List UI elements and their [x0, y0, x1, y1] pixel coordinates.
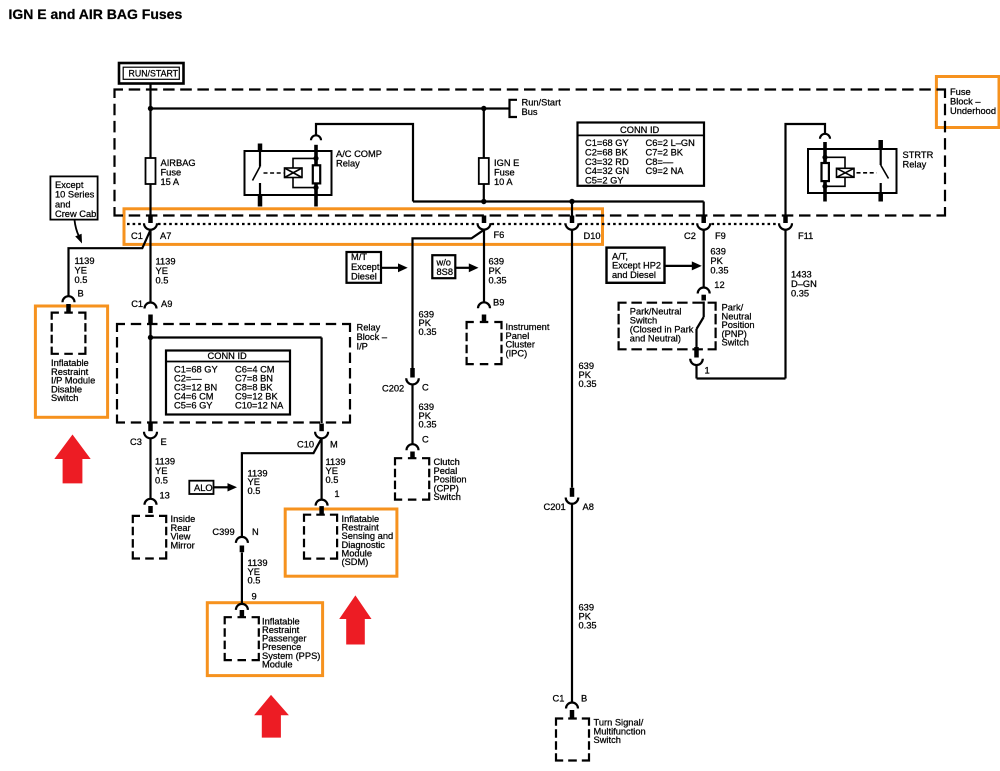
svg-text:C399: C399 [212, 527, 234, 537]
svg-text:F6: F6 [494, 230, 505, 240]
svg-text:Fuse: Fuse [494, 168, 515, 178]
svg-text:E: E [161, 437, 167, 447]
svg-text:and: and [55, 199, 71, 209]
svg-text:B: B [78, 289, 84, 299]
svg-text:0.35: 0.35 [419, 420, 437, 430]
svg-text:0.35: 0.35 [579, 621, 597, 631]
svg-text:D10: D10 [584, 231, 601, 241]
svg-text:(IPC): (IPC) [506, 348, 528, 358]
svg-text:C: C [422, 434, 429, 444]
svg-text:Switch: Switch [51, 393, 78, 403]
svg-text:1139: 1139 [156, 257, 176, 267]
svg-text:YE: YE [75, 266, 87, 276]
svg-text:Switch: Switch [434, 492, 461, 502]
svg-text:Block –: Block – [950, 96, 981, 106]
svg-text:13: 13 [160, 491, 170, 501]
svg-text:C1: C1 [553, 693, 565, 703]
svg-text:PK: PK [710, 256, 723, 266]
svg-text:Diesel: Diesel [351, 271, 377, 281]
svg-text:C: C [422, 383, 429, 393]
svg-text:IGN E and AIR BAG Fuses: IGN E and AIR BAG Fuses [9, 6, 183, 22]
svg-text:0.35: 0.35 [579, 379, 597, 389]
svg-text:D–GN: D–GN [791, 279, 817, 289]
svg-text:Module: Module [262, 659, 293, 669]
svg-text:w/o: w/o [436, 257, 451, 267]
svg-text:0.5: 0.5 [326, 475, 339, 485]
svg-text:Block –: Block – [357, 332, 388, 342]
svg-text:A9: A9 [161, 299, 172, 309]
svg-text:9: 9 [252, 591, 257, 601]
svg-text:0.5: 0.5 [156, 276, 169, 286]
svg-text:YE: YE [155, 466, 167, 476]
svg-text:C5=2 GY: C5=2 GY [585, 176, 624, 186]
svg-text:10 A: 10 A [494, 177, 513, 187]
svg-text:Relay: Relay [357, 323, 381, 333]
svg-text:A7: A7 [160, 231, 171, 241]
svg-text:12: 12 [714, 280, 724, 290]
svg-text:1139: 1139 [155, 457, 175, 467]
svg-text:Run/Start: Run/Start [522, 98, 562, 108]
svg-text:639: 639 [710, 247, 726, 257]
svg-text:C10=12 NA: C10=12 NA [235, 400, 284, 410]
svg-text:and Neutral): and Neutral) [630, 334, 681, 344]
svg-text:Fuse: Fuse [161, 168, 182, 178]
svg-text:STRTR: STRTR [903, 150, 934, 160]
svg-text:Bus: Bus [522, 107, 538, 117]
svg-text:C1: C1 [131, 299, 143, 309]
svg-text:0.5: 0.5 [75, 275, 88, 285]
svg-text:Except: Except [351, 262, 380, 272]
svg-text:B9: B9 [493, 298, 504, 308]
svg-text:CONN ID: CONN ID [620, 125, 660, 135]
svg-text:0.35: 0.35 [419, 327, 437, 337]
svg-text:N: N [252, 527, 259, 537]
svg-text:0.35: 0.35 [710, 266, 728, 276]
svg-text:YE: YE [156, 266, 168, 276]
svg-text:A8: A8 [583, 502, 594, 512]
svg-text:C3: C3 [130, 437, 142, 447]
svg-text:ALO: ALO [194, 483, 213, 493]
svg-text:0.5: 0.5 [248, 576, 261, 586]
svg-text:AIRBAG: AIRBAG [161, 158, 196, 168]
svg-text:0.35: 0.35 [489, 276, 507, 286]
svg-text:Relay: Relay [336, 159, 360, 169]
svg-text:and Diesel: and Diesel [612, 270, 656, 280]
svg-text:1433: 1433 [791, 270, 812, 280]
svg-text:1: 1 [705, 366, 710, 376]
svg-text:C10: C10 [297, 440, 314, 450]
svg-text:0.35: 0.35 [791, 289, 809, 299]
svg-text:10 Series: 10 Series [55, 190, 95, 200]
svg-text:(SDM): (SDM) [342, 557, 369, 567]
svg-text:Fuse: Fuse [950, 87, 971, 97]
svg-text:639: 639 [489, 257, 505, 267]
svg-text:Underhood: Underhood [950, 106, 996, 116]
svg-text:M/T: M/T [351, 252, 367, 262]
svg-text:Switch: Switch [722, 338, 749, 348]
svg-text:I/P: I/P [357, 342, 368, 352]
svg-text:Mirror: Mirror [171, 540, 195, 550]
svg-text:C1: C1 [131, 231, 143, 241]
svg-text:RUN/START: RUN/START [129, 69, 179, 79]
svg-text:C9=2 NA: C9=2 NA [646, 166, 685, 176]
svg-text:C201: C201 [544, 502, 566, 512]
svg-text:Crew Cab: Crew Cab [55, 209, 96, 219]
svg-text:C2: C2 [684, 231, 696, 241]
svg-text:15 A: 15 A [161, 177, 180, 187]
svg-text:Relay: Relay [903, 160, 927, 170]
svg-text:IGN E: IGN E [494, 158, 519, 168]
svg-text:1139: 1139 [75, 256, 95, 266]
svg-text:F11: F11 [798, 231, 813, 241]
svg-text:Except: Except [55, 180, 84, 190]
svg-text:A/C COMP: A/C COMP [336, 149, 382, 159]
svg-text:B: B [581, 693, 587, 703]
svg-text:1: 1 [334, 489, 339, 499]
svg-text:8S8: 8S8 [437, 267, 454, 277]
svg-text:C5=6 GY: C5=6 GY [174, 400, 213, 410]
svg-text:CONN ID: CONN ID [208, 351, 248, 361]
svg-text:PK: PK [489, 266, 502, 276]
svg-text:C202: C202 [382, 383, 404, 393]
svg-text:Switch: Switch [594, 735, 621, 745]
svg-text:F9: F9 [715, 231, 726, 241]
svg-text:M: M [330, 440, 338, 450]
svg-text:0.5: 0.5 [248, 486, 261, 496]
svg-text:0.5: 0.5 [155, 476, 168, 486]
